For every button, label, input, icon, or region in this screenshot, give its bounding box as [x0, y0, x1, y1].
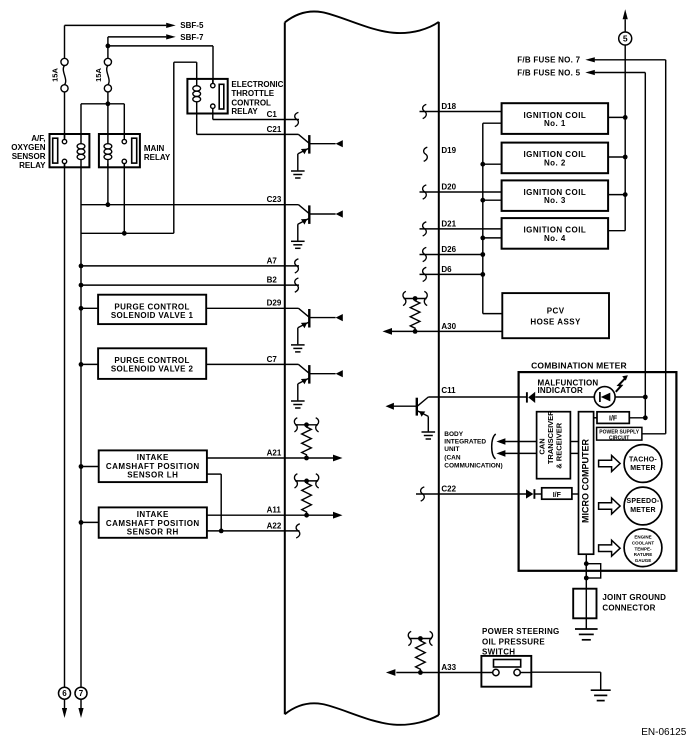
- svg-text:B2: B2: [267, 276, 278, 285]
- svg-text:CONNECTOR: CONNECTOR: [602, 604, 655, 613]
- svg-text:C11: C11: [441, 386, 456, 395]
- svg-text:INTAKE: INTAKE: [137, 453, 169, 462]
- svg-text:BODY: BODY: [444, 431, 463, 438]
- svg-text:SOLENOID VALVE 2: SOLENOID VALVE 2: [111, 365, 194, 374]
- svg-text:RATURE: RATURE: [634, 552, 652, 557]
- svg-text:EN-06125: EN-06125: [641, 727, 686, 738]
- svg-text:INTEGRATED: INTEGRATED: [444, 438, 486, 445]
- svg-text:SBF-7: SBF-7: [180, 33, 204, 42]
- svg-text:D26: D26: [441, 245, 456, 254]
- svg-text:ENGINE: ENGINE: [634, 535, 651, 540]
- svg-text:C7: C7: [267, 355, 278, 364]
- svg-text:7: 7: [79, 689, 84, 698]
- svg-text:No. 2: No. 2: [544, 158, 566, 167]
- svg-text:C21: C21: [267, 125, 282, 134]
- svg-text:C1: C1: [267, 110, 278, 119]
- svg-text:INDICATOR: INDICATOR: [538, 386, 584, 395]
- svg-text:METER: METER: [630, 507, 656, 514]
- svg-text:D21: D21: [441, 219, 456, 228]
- svg-text:COMBINATION METER: COMBINATION METER: [531, 360, 627, 370]
- svg-text:SWITCH: SWITCH: [482, 647, 515, 656]
- svg-text:No. 1: No. 1: [544, 119, 566, 128]
- svg-text:C23: C23: [267, 195, 282, 204]
- svg-text:A7: A7: [267, 256, 278, 265]
- svg-text:D19: D19: [441, 146, 456, 155]
- svg-text:JOINT GROUND: JOINT GROUND: [602, 593, 666, 602]
- svg-text:& RECEIVER: & RECEIVER: [554, 422, 563, 468]
- svg-text:15A: 15A: [51, 68, 60, 82]
- svg-text:THROTTLE: THROTTLE: [231, 89, 274, 98]
- svg-text:I/F: I/F: [553, 492, 562, 499]
- svg-text:COMMUNICATION): COMMUNICATION): [444, 463, 502, 470]
- svg-text:GAUGE: GAUGE: [635, 558, 652, 563]
- svg-text:SPEEDO-: SPEEDO-: [627, 498, 660, 505]
- svg-text:F/B FUSE NO. 7: F/B FUSE NO. 7: [517, 56, 580, 65]
- svg-text:15A: 15A: [94, 68, 103, 82]
- svg-text:COOLANT: COOLANT: [632, 541, 654, 546]
- svg-text:SENSOR: SENSOR: [12, 152, 46, 161]
- svg-text:OXYGEN: OXYGEN: [11, 143, 45, 152]
- svg-text:MICRO COMPUTER: MICRO COMPUTER: [580, 439, 590, 523]
- svg-text:INTAKE: INTAKE: [137, 510, 169, 519]
- svg-text:SENSOR LH: SENSOR LH: [127, 471, 178, 480]
- svg-text:A11: A11: [267, 506, 282, 515]
- svg-text:D6: D6: [441, 265, 452, 274]
- svg-text:METER: METER: [630, 465, 656, 472]
- svg-text:5: 5: [623, 34, 628, 44]
- svg-text:RELAY: RELAY: [144, 153, 171, 162]
- svg-text:SENSOR RH: SENSOR RH: [127, 528, 179, 537]
- svg-text:RELAY: RELAY: [19, 161, 46, 170]
- svg-text:A/F,: A/F,: [31, 134, 45, 143]
- svg-text:6: 6: [62, 689, 67, 698]
- svg-text:SBF-5: SBF-5: [180, 21, 204, 30]
- svg-text:PURGE CONTROL: PURGE CONTROL: [114, 302, 189, 311]
- svg-text:A33: A33: [441, 663, 456, 672]
- svg-text:POWER STEERING: POWER STEERING: [482, 627, 560, 636]
- svg-text:CONTROL: CONTROL: [231, 98, 271, 107]
- svg-text:No. 4: No. 4: [544, 234, 566, 243]
- svg-text:A22: A22: [267, 521, 282, 530]
- svg-text:ELECTRONIC: ELECTRONIC: [231, 80, 283, 89]
- svg-text:PURGE CONTROL: PURGE CONTROL: [114, 356, 189, 365]
- svg-text:A21: A21: [267, 448, 282, 457]
- svg-text:(CAN: (CAN: [444, 454, 461, 461]
- svg-text:OIL PRESSURE: OIL PRESSURE: [482, 637, 545, 646]
- svg-text:RELAY: RELAY: [231, 107, 258, 116]
- svg-text:MAIN: MAIN: [144, 144, 165, 153]
- svg-text:SOLENOID VALVE 1: SOLENOID VALVE 1: [111, 311, 194, 320]
- svg-text:TACHO-: TACHO-: [629, 456, 657, 463]
- svg-text:A30: A30: [441, 322, 456, 331]
- svg-text:UNIT: UNIT: [444, 446, 459, 453]
- svg-text:HOSE ASSY: HOSE ASSY: [530, 317, 581, 326]
- svg-text:D18: D18: [441, 102, 456, 111]
- svg-text:CIRCUIT: CIRCUIT: [609, 435, 629, 441]
- svg-text:TEMPE-: TEMPE-: [634, 546, 652, 551]
- svg-text:F/B FUSE NO. 5: F/B FUSE NO. 5: [517, 68, 580, 77]
- svg-text:No. 3: No. 3: [544, 196, 566, 205]
- svg-text:PCV: PCV: [547, 307, 565, 316]
- svg-text:I/F: I/F: [609, 416, 618, 423]
- svg-text:D29: D29: [267, 299, 282, 308]
- svg-text:D20: D20: [441, 182, 456, 191]
- svg-text:C22: C22: [441, 484, 456, 493]
